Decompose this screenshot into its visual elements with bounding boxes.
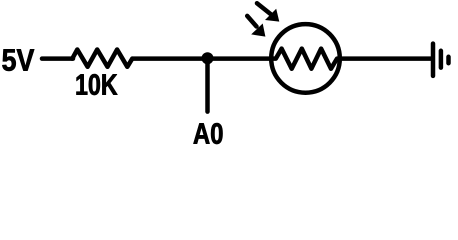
wire from photoresistor to ground [339, 56, 432, 61]
ground bar 1 (tall) [431, 44, 436, 76]
junction node [202, 52, 214, 64]
photoresistor LDR1 body circle [271, 24, 340, 93]
ground bar 3 (short) [446, 57, 451, 63]
light arrow 2 head [251, 24, 265, 37]
net label 5V [2, 49, 34, 71]
wire from node down to A0 [205, 59, 210, 112]
ground bar 2 (medium) [439, 51, 444, 68]
wire from resistor to photoresistor [132, 56, 272, 61]
light arrow 2 shaft [247, 16, 256, 27]
photoresistor LDR1 internal resistor zigzag [270, 49, 341, 69]
pin label A0 [194, 123, 223, 144]
wire from 5V to resistor [42, 56, 73, 61]
light arrow 1 shaft [257, 3, 271, 14]
value label 10K [77, 74, 118, 95]
light arrow 1 head [265, 9, 279, 22]
resistor R1 [72, 50, 132, 67]
